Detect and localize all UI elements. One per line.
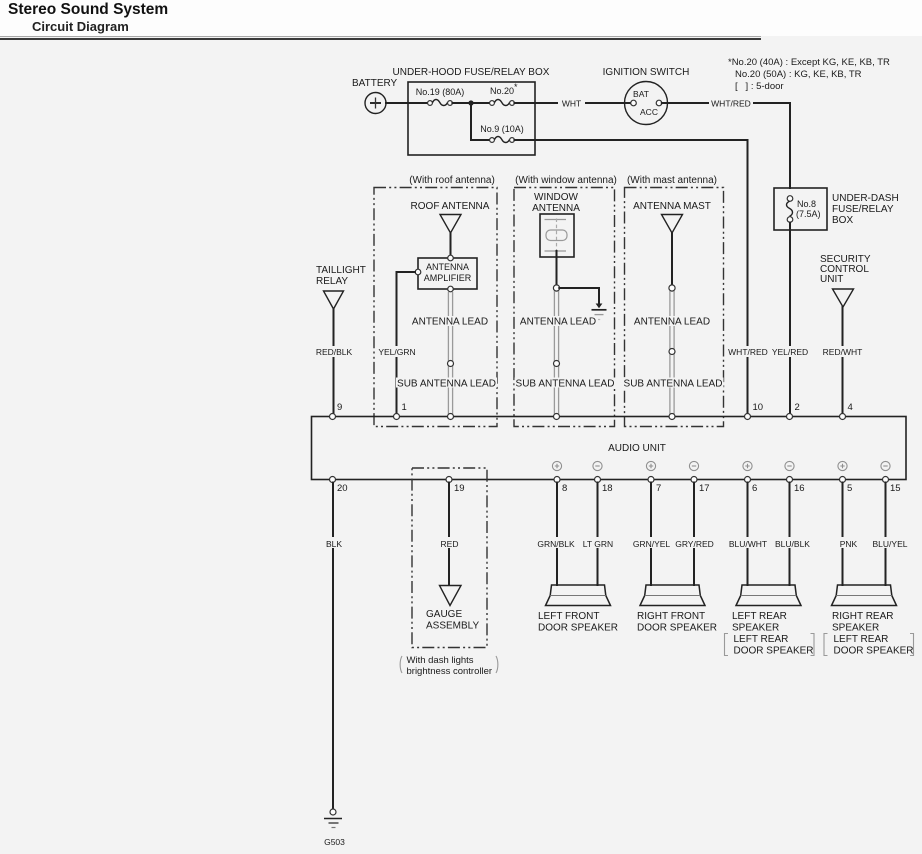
antenna amplifier: [415, 255, 477, 292]
svg-text:BATTERY: BATTERY: [352, 78, 398, 89]
fuse No.8 (7.5A): [787, 196, 821, 223]
wire fuse19 to fuse20 with junction: [452, 102, 489, 104]
mast antenna lead: [623, 291, 724, 414]
wire pin 19 to gauge assembly, RED: [439, 483, 460, 585]
wires pins 8/18 to left front door speaker: [536, 483, 614, 586]
svg-text:SPEAKER: SPEAKER: [732, 623, 779, 634]
svg-text:DOOR SPEAKER: DOOR SPEAKER: [637, 623, 717, 634]
svg-text:GRY/RED: GRY/RED: [675, 539, 714, 549]
svg-text:16: 16: [794, 483, 805, 494]
gauge assembly: [426, 586, 479, 632]
svg-text:10: 10: [753, 402, 764, 413]
svg-text:DOOR SPEAKER: DOOR SPEAKER: [834, 646, 914, 657]
svg-text:17: 17: [699, 483, 710, 494]
svg-text:DOOR SPEAKER: DOOR SPEAKER: [538, 623, 618, 634]
fuse No.20: [490, 82, 518, 106]
audio unit speaker polarity marks: [552, 461, 890, 470]
window antenna: [532, 192, 580, 291]
svg-text:IGNITION SWITCH: IGNITION SWITCH: [603, 67, 690, 78]
svg-text:19: 19: [454, 483, 465, 494]
svg-text:GRN/BLK: GRN/BLK: [537, 539, 575, 549]
dashed box (With mast antenna): [625, 175, 724, 427]
fuse No.9 (10A): [480, 124, 524, 143]
svg-text:RED: RED: [441, 539, 459, 549]
wire battery to fuse box: [386, 102, 408, 104]
ground (window antenna): [592, 304, 607, 320]
svg-text:G503: G503: [324, 837, 345, 847]
svg-text:YEL/GRN: YEL/GRN: [378, 347, 415, 357]
audio unit: [312, 417, 907, 480]
svg-text:(7.5A): (7.5A): [796, 209, 821, 219]
svg-text:No.20 (50A) : KG, KE, KB, TR: No.20 (50A) : KG, KE, KB, TR: [735, 69, 862, 80]
svg-text:RIGHT REAR: RIGHT REAR: [832, 611, 894, 622]
svg-text:PNK: PNK: [840, 539, 858, 549]
svg-text:LT GRN: LT GRN: [583, 539, 613, 549]
svg-text:ACC: ACC: [640, 107, 658, 117]
svg-text:(With mast antenna): (With mast antenna): [627, 175, 717, 186]
pin number labels bottom: [337, 483, 901, 494]
audio unit top pins: [330, 414, 846, 420]
svg-text:*No.20 (40A) : Except KG, KE,: *No.20 (40A) : Except KG, KE, KB, TR: [728, 57, 890, 68]
pin number labels top: [753, 402, 853, 413]
wire pin 20 to ground G503, BLK: [324, 483, 343, 810]
svg-text:ANTENNA LEAD: ANTENNA LEAD: [520, 317, 596, 328]
svg-text:6: 6: [752, 483, 757, 494]
svg-text:TAILLIGHT: TAILLIGHT: [316, 265, 366, 276]
roof antenna lead: [396, 292, 497, 414]
svg-text:ANTENNA: ANTENNA: [532, 203, 580, 214]
junction node: [468, 100, 473, 105]
fuse No.19 (80A): [416, 87, 465, 106]
svg-text:BLU/YEL: BLU/YEL: [873, 539, 908, 549]
svg-text:SUB ANTENNA LEAD: SUB ANTENNA LEAD: [397, 379, 496, 390]
svg-text:BLU/BLK: BLU/BLK: [775, 539, 810, 549]
svg-text:WINDOW: WINDOW: [534, 192, 578, 203]
antenna mast: [633, 201, 711, 291]
left front door speaker: [538, 585, 618, 634]
ground G503: [324, 809, 345, 847]
svg-text:No.19 (80A): No.19 (80A): [416, 87, 465, 97]
roof antenna: [411, 201, 490, 255]
audio unit bottom pins: [330, 477, 889, 483]
header: [0, 0, 922, 36]
dashed box (With roof antenna): [374, 175, 497, 427]
svg-text:No.9 (10A): No.9 (10A): [480, 124, 524, 134]
svg-text:brightness controller: brightness controller: [407, 666, 493, 677]
svg-text:4: 4: [848, 402, 853, 413]
under-dash fuse/relay box: [774, 188, 899, 230]
svg-text:No.20: No.20: [490, 86, 514, 96]
svg-text:ANTENNA: ANTENNA: [426, 262, 469, 272]
svg-text:WHT: WHT: [562, 99, 581, 109]
svg-text:20: 20: [337, 483, 348, 494]
wire ignition to under-dash box, WHT/RED: [662, 97, 790, 188]
svg-text:WHT/RED: WHT/RED: [728, 347, 768, 357]
svg-text:LEFT REAR: LEFT REAR: [732, 611, 787, 622]
svg-text:LEFT REAR: LEFT REAR: [734, 634, 789, 645]
svg-text:[ ] : 5-door: [ ] : 5-door: [735, 81, 784, 92]
left rear speaker: [725, 585, 815, 657]
dashed box (With dash lights brightness controller): [412, 468, 487, 648]
note text: [728, 57, 890, 92]
svg-text:AMPLIFIER: AMPLIFIER: [424, 273, 472, 283]
svg-text:BOX: BOX: [832, 215, 853, 226]
svg-text:UNDER-HOOD FUSE/RELAY BOX: UNDER-HOOD FUSE/RELAY BOX: [393, 67, 550, 78]
svg-text:LEFT FRONT: LEFT FRONT: [538, 611, 599, 622]
svg-text:5: 5: [847, 483, 852, 494]
svg-text:BLU/WHT: BLU/WHT: [729, 539, 767, 549]
right front door speaker: [637, 585, 717, 634]
svg-text:RED/WHT: RED/WHT: [823, 347, 863, 357]
svg-text:SPEAKER: SPEAKER: [832, 623, 879, 634]
svg-text:No.8: No.8: [797, 199, 816, 209]
taillight relay: [315, 265, 366, 414]
svg-text:RED/BLK: RED/BLK: [316, 347, 353, 357]
svg-text:2: 2: [795, 402, 800, 413]
svg-text:GAUGE: GAUGE: [426, 609, 462, 620]
ignition switch: [603, 67, 690, 125]
svg-text:ASSEMBLY: ASSEMBLY: [426, 621, 479, 632]
window antenna lead: [515, 291, 616, 414]
svg-text:ANTENNA LEAD: ANTENNA LEAD: [412, 317, 488, 328]
svg-text:8: 8: [562, 483, 567, 494]
svg-text:SUB ANTENNA LEAD: SUB ANTENNA LEAD: [516, 379, 615, 390]
svg-text:UNDER-DASH: UNDER-DASH: [832, 193, 899, 204]
svg-text:(With window antenna): (With window antenna): [515, 175, 617, 186]
svg-text:(With roof antenna): (With roof antenna): [409, 175, 495, 186]
svg-text:UNIT: UNIT: [820, 274, 843, 285]
svg-text:7: 7: [656, 483, 661, 494]
svg-text:RELAY: RELAY: [316, 276, 348, 287]
svg-text:SUB ANTENNA LEAD: SUB ANTENNA LEAD: [624, 379, 723, 390]
wire into fuse 19: [408, 102, 428, 104]
svg-text:18: 18: [602, 483, 613, 494]
svg-text:BLK: BLK: [326, 539, 342, 549]
wire fuse20 to ignition switch, WHT: [514, 97, 631, 109]
svg-text:AUDIO UNIT: AUDIO UNIT: [608, 443, 666, 454]
wire window antenna to ground: [559, 288, 599, 304]
right rear speaker: [824, 585, 914, 657]
security control unit: [820, 254, 871, 414]
svg-text:ROOF ANTENNA: ROOF ANTENNA: [411, 201, 490, 212]
wire amplifier to pin 1, YEL/GRN: [378, 272, 416, 414]
svg-text:ANTENNA MAST: ANTENNA MAST: [633, 201, 711, 212]
under-hood fuse/relay box: [393, 67, 550, 155]
dashed box (With window antenna): [514, 175, 617, 427]
svg-text:FUSE/RELAY: FUSE/RELAY: [832, 204, 894, 215]
svg-text:LEFT REAR: LEFT REAR: [834, 634, 889, 645]
svg-text:*: *: [514, 82, 518, 92]
svg-text:15: 15: [890, 483, 901, 494]
svg-text:ANTENNA LEAD: ANTENNA LEAD: [634, 317, 710, 328]
svg-text:1: 1: [402, 402, 407, 413]
svg-text:DOOR SPEAKER: DOOR SPEAKER: [734, 646, 814, 657]
wires pins 6/16 to left rear speaker: [728, 483, 812, 586]
svg-text:WHT/RED: WHT/RED: [711, 99, 751, 109]
note (With dash lights brightness controller): [400, 655, 498, 677]
svg-text:YEL/RED: YEL/RED: [772, 347, 808, 357]
svg-text:BAT: BAT: [633, 89, 649, 99]
svg-text:GRN/YEL: GRN/YEL: [633, 539, 671, 549]
wires pins 5/15 to right rear speaker: [836, 483, 909, 586]
wires pins 7/17 to right front door speaker: [632, 483, 714, 586]
wire junction down to fuse 9: [471, 105, 490, 140]
wire fuse9 right and down to pin 10, WHT/RED: [514, 140, 769, 414]
wire fuse8 down to pin 2, YEL/RED: [771, 223, 809, 415]
svg-text:With dash lights: With dash lights: [407, 655, 474, 666]
svg-text:9: 9: [337, 402, 342, 413]
battery B1: [352, 78, 398, 114]
svg-text:RIGHT FRONT: RIGHT FRONT: [637, 611, 705, 622]
